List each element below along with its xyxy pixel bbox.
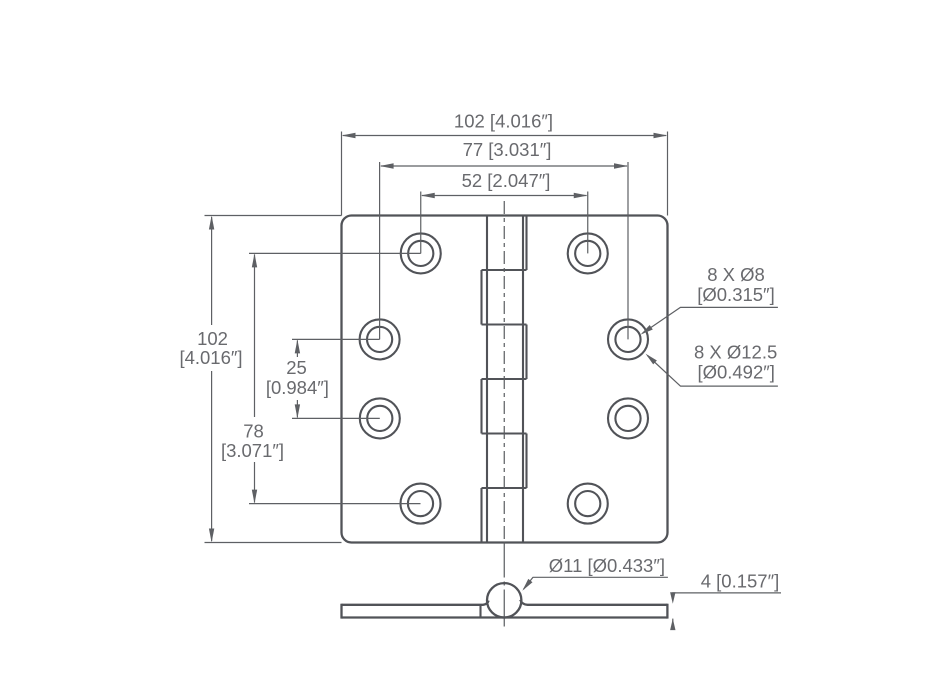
hinge pin centerline profile view bbox=[503, 542, 505, 631]
dim 4 extension line bbox=[673, 593, 781, 598]
dim 102 top line bbox=[343, 135, 666, 137]
hole L4 outer bbox=[401, 484, 441, 524]
dim 102 top right arrow bbox=[654, 133, 668, 138]
dim 25 down arrow bbox=[295, 404, 300, 418]
dim 78 hole L1 extension line bbox=[249, 252, 421, 254]
hole L4 inner bbox=[408, 491, 433, 516]
hole R4 inner bbox=[575, 491, 600, 516]
profile left leaf end line bbox=[479, 605, 481, 618]
svg-text:[0.984″]: [0.984″] bbox=[266, 377, 329, 398]
hole R4 outer bbox=[568, 484, 608, 524]
dim 102 left line lower segment bbox=[211, 371, 213, 541]
dim 4 top arrow bbox=[670, 592, 675, 604]
knuckle segment 5 right edge bbox=[525, 434, 527, 489]
hole L1 inner bbox=[408, 241, 433, 266]
knuckle junction line 1 bbox=[482, 269, 527, 271]
dim 78 hole L4 extension line bbox=[249, 503, 421, 505]
dim 52 line bbox=[422, 195, 587, 197]
knuckle segment 3 right edge bbox=[525, 325, 527, 380]
knuckle junction line 3 bbox=[482, 378, 527, 380]
dim 102 left top arrow bbox=[209, 216, 214, 230]
profile bar left end edge bbox=[340, 604, 342, 619]
hole L3 outer bbox=[360, 398, 400, 438]
svg-text:[Ø0.315″]: [Ø0.315″] bbox=[697, 284, 775, 305]
dim 25 hole L3 extension line bbox=[292, 417, 380, 419]
hole R3 inner bbox=[615, 406, 640, 431]
dim 77 right extension line bbox=[627, 162, 629, 339]
svg-text:52 [2.047″]: 52 [2.047″] bbox=[462, 170, 551, 191]
dim 102 left bottom arrow bbox=[209, 529, 214, 543]
right leaf outline bbox=[523, 216, 668, 543]
dim 25 up arrow bbox=[295, 339, 300, 353]
profile bar right top edge bbox=[520, 600, 667, 605]
hole L3 inner bbox=[367, 406, 392, 431]
left leaf outline bbox=[342, 216, 488, 543]
dim 78 bottom arrow bbox=[252, 490, 257, 504]
knuckle left continuous edge bbox=[486, 216, 488, 543]
svg-text:8 X Ø12.5: 8 X Ø12.5 bbox=[694, 341, 777, 362]
dim 102 top left arrow bbox=[342, 133, 356, 138]
hole L2 outer bbox=[360, 319, 400, 359]
dim 78 line upper segment bbox=[254, 255, 256, 418]
knuckle junction line 5 bbox=[482, 487, 527, 489]
hole R3 outer bbox=[608, 398, 648, 438]
callout 8xD8 leader line bbox=[643, 307, 778, 333]
svg-text:102: 102 bbox=[197, 328, 228, 349]
hole R1 outer bbox=[568, 233, 608, 273]
callout 8xD8 leader arrow bbox=[641, 325, 653, 335]
svg-text:77 [3.031″]: 77 [3.031″] bbox=[463, 139, 552, 160]
dim 52 right extension line bbox=[587, 192, 589, 254]
dim 102 left top extension line bbox=[205, 215, 342, 217]
dim 4 bottom arrow bbox=[670, 619, 675, 631]
knuckle segment 1 right edge bbox=[525, 216, 527, 271]
svg-text:4 [0.157″]: 4 [0.157″] bbox=[701, 571, 780, 592]
svg-text:[3.071″]: [3.071″] bbox=[221, 440, 284, 461]
profile knuckle circle bbox=[487, 583, 521, 617]
dim 102 top left extension line bbox=[341, 132, 343, 216]
svg-text:[4.016″]: [4.016″] bbox=[179, 347, 242, 368]
dim 78 line lower segment bbox=[254, 462, 256, 503]
dim 102 top right extension line bbox=[667, 132, 669, 216]
dim 102 left bottom extension line bbox=[205, 542, 342, 544]
dim 77 right arrow bbox=[614, 163, 628, 168]
knuckle junction line 4 bbox=[482, 432, 527, 434]
dim D11 leader line bbox=[524, 577, 668, 589]
dim 52 left arrow bbox=[421, 193, 435, 198]
dim 78 top arrow bbox=[252, 253, 257, 267]
dim 77 left arrow bbox=[380, 163, 394, 168]
hole L1 outer bbox=[401, 233, 441, 273]
callout 8xD12.5 leader line bbox=[648, 356, 778, 387]
svg-text:25: 25 bbox=[286, 357, 307, 378]
dim 77 left extension line bbox=[379, 162, 381, 339]
dim 77 line bbox=[381, 165, 627, 167]
dim 52 left extension line bbox=[420, 192, 422, 254]
knuckle right continuous edge bbox=[522, 216, 524, 543]
profile bar left top edge bbox=[342, 601, 489, 605]
dim D11 leader arrow bbox=[522, 579, 532, 591]
knuckle segment 6 bottom edge bbox=[482, 541, 524, 543]
hole R1 inner bbox=[575, 241, 600, 266]
dim 102 left line upper segment bbox=[211, 217, 213, 325]
hinge pin centerline main view bbox=[503, 201, 505, 542]
hole L2 inner bbox=[367, 327, 392, 352]
svg-text:[Ø0.492″]: [Ø0.492″] bbox=[697, 361, 775, 382]
profile bar bottom edge bbox=[342, 616, 668, 618]
knuckle segment 1 top edge bbox=[487, 214, 527, 216]
hole R2 outer bbox=[608, 319, 648, 359]
dim 25 up arrow stem bbox=[296, 340, 298, 357]
svg-text:102 [4.016″]: 102 [4.016″] bbox=[454, 111, 553, 132]
callout 8xD12.5 leader arrow bbox=[646, 354, 657, 365]
svg-text:Ø11 [Ø0.433″]: Ø11 [Ø0.433″] bbox=[549, 555, 665, 576]
dim 52 right arrow bbox=[574, 193, 588, 198]
knuckle segment 4 left edge bbox=[480, 379, 482, 434]
svg-text:78: 78 bbox=[243, 421, 264, 442]
knuckle segment 6 left edge bbox=[480, 488, 482, 543]
profile bar right end edge bbox=[666, 604, 668, 619]
dim 25 hole L2 extension line bbox=[292, 338, 380, 340]
knuckle junction line 2 bbox=[482, 323, 527, 325]
knuckle segment 2 left edge bbox=[480, 270, 482, 325]
svg-text:8 X Ø8: 8 X Ø8 bbox=[707, 264, 765, 285]
dim 25 down arrow stem bbox=[296, 400, 298, 417]
dim 4 bottom arrow stem bbox=[672, 619, 674, 629]
hole R2 inner bbox=[615, 327, 640, 352]
